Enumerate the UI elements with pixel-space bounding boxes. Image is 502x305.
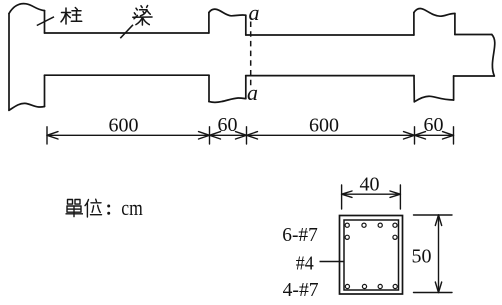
rebar circles second row (2) [345,235,349,239]
svg-text:600: 600 [309,115,339,137]
double arrow at 414.5 [404,132,426,139]
dim 50 arrows [435,215,441,226]
column middle: right edge lower [245,76,247,99]
unit label 位 drawn glyph [85,199,102,217]
double arrow at 209.5 [199,132,221,139]
leader slash for beam label [120,25,133,38]
fullwidth colon [107,205,110,215]
dim 50 line [438,215,440,293]
rebar circles bottom row (4) [345,284,349,288]
svg-text:50: 50 [412,246,432,268]
beam span3 bottom line [454,75,495,77]
arrow left end [47,132,58,139]
column left: left edge [8,14,10,111]
beam span2 top line [246,34,414,36]
svg-text:cm: cm [121,195,143,220]
svg-text:6-#7: 6-#7 [282,224,318,246]
svg-text:4-#7: 4-#7 [283,279,319,301]
column right: right edge lower [453,76,455,100]
column right: left edge upper [413,13,415,36]
leader line for #4 stirrup [320,261,345,263]
tick at x=453.5 [453,127,455,144]
tick at x=47 [46,127,48,144]
label 柱 (column) drawn glyph [61,8,82,25]
column middle: right edge upper [245,15,247,35]
column right: right edge upper [454,14,456,35]
svg-text:60: 60 [218,114,238,136]
column right: bottom break wave [414,96,453,102]
unit label 單 drawn glyph [66,200,84,218]
tick at x=209.5 [209,127,211,144]
svg-text:60: 60 [424,114,444,136]
beam right end break wave [492,35,495,77]
column middle: left edge lower [208,75,210,101]
svg-text:40: 40 [360,174,380,196]
main dimension line [47,127,454,144]
svg-text:a: a [247,80,258,105]
tick at x=246.5 [246,127,248,144]
dim 40 extension lines [342,185,401,209]
label 梁 (beam) drawn glyph [133,6,152,26]
dim 40 arrows [342,191,352,197]
svg-text:a: a [249,0,260,25]
leader slash for column label [37,17,54,26]
column right: left edge lower [413,76,415,102]
svg-text:600: 600 [109,115,139,137]
beam span1 bottom line [45,74,210,76]
rebar circles top row (4) [345,223,397,289]
tick at x=414.5 [414,127,416,144]
cross-section outer rectangle [340,216,403,295]
column left: right edge upper [44,11,46,33]
column left: right edge lower [44,75,46,106]
column left: top break wave [9,4,45,14]
dim 50 extension lines [414,215,453,293]
svg-text:#4: #4 [296,252,314,274]
column middle: left edge upper [208,13,210,34]
double arrow at 246.5 [236,132,258,139]
dim 40 line [342,193,401,195]
beam span2 bottom line [246,75,414,77]
arrow right end [443,132,454,139]
column middle: bottom break wave [209,98,246,102]
column middle: top break wave [209,9,246,16]
beam span3 top line [455,34,492,36]
section line a-a (dashed) [250,22,252,90]
beam span1 top line [45,32,209,34]
column left: bottom break wave [9,103,45,110]
column right: top break wave [414,9,455,17]
cross-section stirrup (inner rectangle) [344,220,399,290]
